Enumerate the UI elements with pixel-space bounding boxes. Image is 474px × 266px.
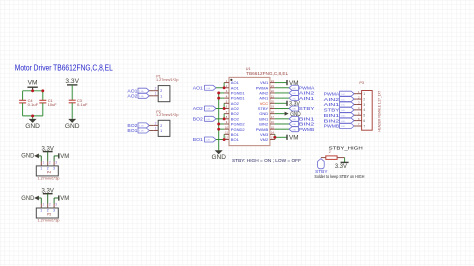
svg-text:STBY: HIGH = ON ; LOW = OFF: STBY: HIGH = ON ; LOW = OFF xyxy=(232,158,301,163)
ground symbol at P4 xyxy=(21,154,39,160)
svg-text:BO1: BO1 xyxy=(127,128,137,134)
pin U1-5 stub (AO2) xyxy=(224,102,229,104)
flag BIN1 at P3 xyxy=(340,113,355,118)
wire BO2 to U1 xyxy=(216,114,224,119)
svg-text:10uF: 10uF xyxy=(48,102,58,107)
svg-text:Solder to keep STBY on HIGH: Solder to keep STBY on HIGH xyxy=(314,174,364,179)
svg-text:18: 18 xyxy=(271,110,274,114)
pin P5-3 stub xyxy=(53,204,55,209)
svg-text:16: 16 xyxy=(271,120,274,124)
wire BIN1 to P3 xyxy=(354,114,357,116)
svg-text:1: 1 xyxy=(40,209,42,213)
svg-text:3.3V: 3.3V xyxy=(335,163,348,170)
pin U1-14 stub (VM3) xyxy=(270,133,275,135)
power VM symbol right bottom xyxy=(287,135,299,142)
svg-text:1.27mm/1*3p: 1.27mm/1*3p xyxy=(38,176,60,180)
pin P3-6 stub xyxy=(357,120,362,122)
pin U1-10 stub (PGND2) xyxy=(224,128,229,130)
flag AIN1 at P3 xyxy=(340,102,355,107)
pin P1-2 stub xyxy=(153,90,158,92)
svg-text:1.5B: 1.5B xyxy=(139,126,144,128)
wire 3.3V to P4 xyxy=(47,152,49,162)
svg-text:BIN1: BIN1 xyxy=(324,113,340,119)
svg-text:VM2: VM2 xyxy=(260,137,269,142)
svg-text:GND: GND xyxy=(211,154,226,161)
svg-text:1: 1 xyxy=(43,203,45,207)
pin U1-11 stub (BO1) xyxy=(224,133,229,135)
pin P3-3 stub xyxy=(357,103,362,105)
flag BIN2 at U1 xyxy=(289,121,298,126)
svg-text:VM: VM xyxy=(289,135,299,142)
junction PGND1 pin3 xyxy=(217,91,220,94)
pin U1-21 stub (AIN1) xyxy=(270,97,275,99)
wire AO2 to P1 xyxy=(149,95,153,97)
svg-text:PWMB: PWMB xyxy=(299,127,315,133)
svg-text:STBY: STBY xyxy=(299,106,315,112)
connector P4 body xyxy=(36,166,58,176)
flag AIN2 at U1 xyxy=(289,90,298,95)
svg-text:1.2A: 1.2A xyxy=(206,108,211,111)
wire net C3 to GND xyxy=(71,103,73,119)
junction GND rail mid xyxy=(31,114,34,117)
wire net VM rail xyxy=(23,91,43,100)
svg-text:1: 1 xyxy=(155,126,157,130)
junction PGND2 pin9 xyxy=(217,123,220,126)
pin P3-5 stub xyxy=(357,114,362,116)
svg-text:2: 2 xyxy=(160,124,162,128)
svg-text:1.27mm/1*3p: 1.27mm/1*3p xyxy=(38,219,60,223)
wire AIN1 from U1 xyxy=(275,97,289,99)
svg-text:P3: P3 xyxy=(359,81,364,85)
svg-text:P5: P5 xyxy=(47,213,51,217)
svg-text:21: 21 xyxy=(271,94,274,98)
pin jumper right lead xyxy=(337,157,345,159)
wire 3.3V to P5 xyxy=(47,194,49,204)
svg-text:PWMA: PWMA xyxy=(324,91,340,97)
junction AO2 pins xyxy=(223,107,226,110)
svg-text:3.3V: 3.3V xyxy=(289,100,301,107)
pin U1-6 stub (AO2) xyxy=(224,107,229,109)
wire BO1 to P2 xyxy=(149,130,153,132)
svg-text:2: 2 xyxy=(363,97,365,101)
svg-text:GND: GND xyxy=(21,196,35,202)
svg-text:3.3V: 3.3V xyxy=(65,78,79,85)
pin U1-1 stub (AO1) xyxy=(224,82,229,84)
pin U1-17 stub (BIN1) xyxy=(270,118,275,120)
svg-text:14: 14 xyxy=(271,131,274,135)
svg-text:HEADER FEMALE 1.27_1X7: HEADER FEMALE 1.27_1X7 xyxy=(377,91,381,132)
ground symbol below C3 xyxy=(65,119,80,130)
svg-text:3: 3 xyxy=(55,161,57,165)
junction VM rail right xyxy=(41,89,44,92)
wire PGND bus to ground xyxy=(219,93,224,150)
svg-text:23: 23 xyxy=(271,84,274,88)
capacitor C4 xyxy=(19,100,26,103)
power 3.3V supply symbol xyxy=(65,78,79,85)
pin P5-2 stub xyxy=(47,204,49,209)
svg-text:5: 5 xyxy=(363,114,365,118)
svg-text:2: 2 xyxy=(155,121,157,125)
svg-text:1.27mm/1*2p: 1.27mm/1*2p xyxy=(156,113,179,117)
svg-text:AO1: AO1 xyxy=(127,88,137,94)
pin U1-19 stub (STBY) xyxy=(270,107,275,109)
wire GND to P4 xyxy=(39,156,41,162)
junction BO2 pins xyxy=(223,117,226,120)
pin P1-1 stub xyxy=(153,95,158,97)
svg-text:2: 2 xyxy=(49,203,51,207)
power 3.3V symbol at jumper xyxy=(335,162,349,169)
svg-text:AO1: AO1 xyxy=(193,85,203,91)
wire net GND below caps xyxy=(23,103,43,119)
pin U1-8 stub (BO2) xyxy=(224,118,229,120)
svg-text:1.8C: 1.8C xyxy=(292,93,297,95)
wire net 3.3V to C3 xyxy=(71,85,73,100)
svg-text:6: 6 xyxy=(363,119,365,123)
svg-text:AIN1: AIN1 xyxy=(324,102,340,108)
pin U1-24 stub (VM1) xyxy=(270,82,275,84)
svg-text:2: 2 xyxy=(160,89,162,93)
pin U1-18 stub (GND) xyxy=(270,113,275,115)
pin P3-7 stub xyxy=(357,125,362,127)
svg-text:1.6D: 1.6D xyxy=(341,110,346,112)
svg-text:PWMB: PWMB xyxy=(324,124,340,130)
flag BO1 at U1 xyxy=(205,137,217,142)
svg-text:AIN1: AIN1 xyxy=(299,96,315,102)
svg-text:AIN2: AIN2 xyxy=(324,97,340,103)
svg-text:1: 1 xyxy=(160,129,162,133)
flag AO1 at P1 xyxy=(138,88,149,93)
wire BIN2 from U1 xyxy=(275,123,289,125)
svg-text:12: 12 xyxy=(225,136,228,140)
svg-text:GND: GND xyxy=(290,111,301,118)
svg-text:BIN1: BIN1 xyxy=(299,117,315,123)
svg-text:BIN2: BIN2 xyxy=(324,118,340,124)
flag BIN2 at P3 xyxy=(340,118,355,123)
svg-text:AIN2: AIN2 xyxy=(299,91,315,97)
svg-text:GND: GND xyxy=(65,123,80,130)
svg-text:Motor Driver TB6612FNG,C,8,EL: Motor Driver TB6612FNG,C,8,EL xyxy=(15,62,113,72)
ground symbol at P5 xyxy=(21,196,39,202)
pin U1-4 stub (PGND1) xyxy=(224,97,229,99)
wire BIN1 from U1 xyxy=(275,118,289,120)
pin jumper left lead xyxy=(321,157,326,159)
ic U1 pin1 mark xyxy=(230,79,232,81)
wire AO1 to U1 xyxy=(216,83,224,88)
svg-text:7: 7 xyxy=(363,124,365,128)
connector P2 body xyxy=(158,120,170,136)
flag STBY at P3 xyxy=(340,107,355,112)
svg-text:2: 2 xyxy=(155,87,157,91)
svg-text:1: 1 xyxy=(363,92,365,96)
svg-text:GND: GND xyxy=(25,123,40,130)
flag STBY vertical xyxy=(318,159,325,169)
svg-text:TB6612FNG,C,8,EL: TB6612FNG,C,8,EL xyxy=(246,71,289,76)
pin U1-7 stub (BO2) xyxy=(224,113,229,115)
svg-text:4: 4 xyxy=(363,108,365,112)
flag BO1 at P2 xyxy=(138,128,149,133)
connector P1 body xyxy=(158,86,170,102)
svg-text:1.6C: 1.6C xyxy=(341,99,346,101)
flag AIN2 at P3 xyxy=(340,97,355,102)
flag BIN1 at U1 xyxy=(289,116,298,121)
svg-text:17: 17 xyxy=(271,115,274,119)
svg-text:1.5B: 1.5B xyxy=(139,131,144,133)
wire AIN1 to P3 xyxy=(354,103,357,105)
svg-text:GND: GND xyxy=(21,154,35,160)
junction AO1 pins xyxy=(223,86,226,89)
svg-text:BO2: BO2 xyxy=(127,123,137,129)
flag STBY at U1 xyxy=(289,106,298,111)
wire AO2 to U1 xyxy=(216,103,224,108)
flag AO1 at U1 xyxy=(205,85,217,90)
flag AO2 at U1 xyxy=(205,106,217,111)
capacitor C1 xyxy=(39,100,46,103)
svg-text:1.2A: 1.2A xyxy=(206,87,211,90)
flag AIN1 at U1 xyxy=(289,96,298,101)
svg-text:15: 15 xyxy=(271,125,274,129)
wire BO1 to U1 xyxy=(216,134,224,139)
flag BO2 at P2 xyxy=(138,123,149,128)
flag AO2 at P1 xyxy=(138,93,149,98)
pin P2-1 stub xyxy=(153,130,158,132)
svg-text:11: 11 xyxy=(225,131,228,135)
svg-text:0.1uF: 0.1uF xyxy=(28,102,39,107)
flag PWMB at U1 xyxy=(289,127,298,132)
svg-text:STBY_HIGH: STBY_HIGH xyxy=(329,146,363,151)
wire VM1 to supply xyxy=(275,82,287,84)
pin U1-2 stub (AO1) xyxy=(224,87,229,89)
svg-text:10: 10 xyxy=(225,125,228,129)
connector P5 body xyxy=(36,208,58,218)
power VM symbol at P5 xyxy=(59,195,69,202)
resistor STBY_HIGH jumper xyxy=(326,156,337,160)
wire AIN2 from U1 xyxy=(275,92,289,94)
power 3.3V symbol right xyxy=(287,100,301,107)
svg-text:1.6C: 1.6C xyxy=(341,94,346,96)
svg-text:1.6D: 1.6D xyxy=(341,121,346,123)
pin P4-1 stub xyxy=(40,161,42,166)
wire PWMB from U1 xyxy=(275,128,289,130)
wire PWMA from U1 xyxy=(275,87,289,89)
svg-text:AO2: AO2 xyxy=(127,94,137,100)
svg-text:STBY: STBY xyxy=(324,108,340,114)
wire GND pin right xyxy=(275,113,285,115)
svg-text:1.8D: 1.8D xyxy=(292,124,297,126)
wire PWMB to P3 xyxy=(354,125,357,127)
power 3.3V symbol at P4 xyxy=(42,146,54,152)
junction VM stem xyxy=(31,89,34,92)
wire BIN2 to P3 xyxy=(354,120,357,122)
svg-text:VM: VM xyxy=(60,154,69,160)
ground symbol below C4/C1 xyxy=(25,119,40,130)
power VM symbol at P4 xyxy=(59,153,69,160)
wire PWMA to P3 xyxy=(354,93,357,95)
svg-text:VM: VM xyxy=(60,196,69,202)
svg-text:19: 19 xyxy=(271,105,274,109)
pin P2-2 stub xyxy=(153,124,158,126)
svg-text:1.5A: 1.5A xyxy=(139,95,144,98)
power VM symbol right top xyxy=(287,80,299,87)
svg-text:1.6D: 1.6D xyxy=(341,115,346,117)
ic U1 body xyxy=(229,77,270,145)
flag BO2 at U1 xyxy=(205,116,217,121)
svg-text:3: 3 xyxy=(55,203,57,207)
flag PWMA at P3 xyxy=(340,91,355,96)
svg-text:P4: P4 xyxy=(47,170,51,174)
pin P3-2 stub xyxy=(357,98,362,100)
wire STBY from U1 xyxy=(275,107,289,109)
connector P3 body xyxy=(362,91,373,131)
svg-text:20: 20 xyxy=(271,99,274,103)
pin U1-15 stub (PWMB) xyxy=(270,128,275,130)
svg-text:3: 3 xyxy=(53,209,55,213)
junction PGND1 pin4 xyxy=(217,97,220,100)
pin P3-1 stub xyxy=(357,93,362,95)
svg-text:BO2: BO2 xyxy=(193,117,203,123)
pin U1-22 stub (AIN2) xyxy=(270,92,275,94)
capacitor C3 xyxy=(69,100,76,103)
svg-text:3: 3 xyxy=(363,103,365,107)
svg-text:1.27mm/1*2p: 1.27mm/1*2p xyxy=(156,78,179,82)
svg-text:1: 1 xyxy=(43,161,45,165)
wire jumper to 3.3V xyxy=(344,158,346,163)
junction PGND2 pin10 xyxy=(217,128,220,131)
svg-text:VM: VM xyxy=(28,79,38,86)
wire VM3/VM2 merge xyxy=(275,134,287,139)
svg-text:1.8D: 1.8D xyxy=(292,129,297,131)
ground symbol right of U1 xyxy=(285,111,302,118)
svg-text:1.2B: 1.2B xyxy=(206,140,211,142)
pin U1-12 stub (BO1) xyxy=(224,139,229,141)
power VM supply symbol xyxy=(27,79,37,90)
svg-text:1.5A: 1.5A xyxy=(139,90,144,93)
svg-text:1: 1 xyxy=(160,94,162,98)
svg-text:3: 3 xyxy=(53,167,55,171)
pin U1-9 stub (PGND2) xyxy=(224,123,229,125)
junction VM3/VM2 xyxy=(273,136,276,139)
pin P4-2 stub xyxy=(47,161,49,166)
wire BO2 to P2 xyxy=(149,124,153,126)
svg-text:1: 1 xyxy=(155,92,157,96)
svg-text:22: 22 xyxy=(271,89,274,93)
svg-text:2: 2 xyxy=(49,161,51,165)
flag PWMA at U1 xyxy=(289,85,298,90)
svg-text:BO1: BO1 xyxy=(193,137,203,143)
svg-text:0.1uF: 0.1uF xyxy=(77,102,88,107)
wire VM to P4 xyxy=(54,156,59,162)
pin P4-3 stub xyxy=(53,161,55,166)
ground symbol below U1 xyxy=(211,150,226,161)
pin P3-4 stub xyxy=(357,109,362,111)
pin U1-16 stub (BIN2) xyxy=(270,123,275,125)
wire AO1 to P1 xyxy=(149,90,153,92)
svg-text:2: 2 xyxy=(329,150,331,154)
wire VM to P5 xyxy=(54,198,59,204)
power 3.3V symbol at P5 xyxy=(42,189,54,195)
svg-text:BIN2: BIN2 xyxy=(299,122,315,128)
wire VCC to 3.3V xyxy=(275,102,287,104)
wire AIN2 to P3 xyxy=(354,98,357,100)
pin U1-13 stub (VM2) xyxy=(270,139,275,141)
flag PWMB at P3 xyxy=(340,123,355,128)
pin P5-1 stub xyxy=(40,204,42,209)
svg-text:AO2: AO2 xyxy=(193,106,203,112)
svg-text:BO1: BO1 xyxy=(231,137,240,142)
wire GND to P5 xyxy=(39,198,41,204)
wire STBY to P3 xyxy=(354,109,357,111)
svg-text:1.8D: 1.8D xyxy=(292,119,297,121)
svg-text:24: 24 xyxy=(271,79,274,83)
svg-text:1.2B: 1.2B xyxy=(206,119,211,121)
svg-text:1.8C: 1.8C xyxy=(292,88,297,90)
svg-text:PWMA: PWMA xyxy=(299,85,315,91)
junction BO1 pins xyxy=(223,138,226,141)
svg-text:1.6C: 1.6C xyxy=(341,105,346,107)
svg-text:1: 1 xyxy=(40,167,42,171)
pin U1-23 stub (PWMA) xyxy=(270,87,275,89)
pin U1-20 stub (VCC) xyxy=(270,102,275,104)
svg-text:1.6D: 1.6D xyxy=(341,126,346,128)
pin U1-3 stub (PGND1) xyxy=(224,92,229,94)
